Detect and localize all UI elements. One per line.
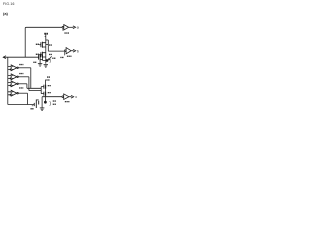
svg-text:FIG.16: FIG.16 (3, 2, 15, 6)
svg-text:c: c (75, 95, 77, 99)
svg-text:a: a (77, 26, 79, 30)
svg-text:b: b (77, 49, 79, 53)
svg-text:(a): (a) (3, 11, 9, 16)
